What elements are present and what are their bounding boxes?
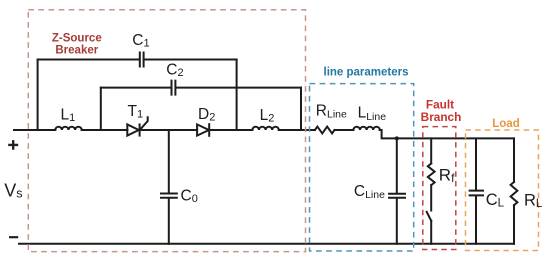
- wire bottom rail: [19, 243, 514, 245]
- wire C0 branch upper: [168, 130, 170, 193]
- resistor RLine: [315, 127, 335, 134]
- wire C2 horizontal: [101, 87, 301, 89]
- label plus terminal: [8, 140, 18, 150]
- wire C1 top horizontal: [38, 59, 237, 61]
- svg-text:Fault: Fault: [426, 97, 454, 111]
- wire CLine branch lower: [396, 198, 398, 244]
- wire CL branch lower: [475, 196, 477, 244]
- wire L2 to RLine: [279, 129, 315, 131]
- wire RL branch upper: [513, 138, 515, 182]
- wire switch to bottom: [430, 221, 432, 244]
- Z-Source Breaker dashed box: [28, 10, 305, 252]
- line parameters dashed box: [310, 84, 414, 251]
- capacitor CLine: [389, 194, 405, 198]
- inductor L1: [55, 127, 81, 130]
- wire CL branch upper: [475, 138, 477, 190]
- wire main top rail left: [14, 129, 55, 131]
- resistor RL: [511, 182, 518, 205]
- wire C2 right vertical: [300, 88, 302, 130]
- wire C0 branch lower: [168, 198, 170, 244]
- svg-text:Breaker: Breaker: [55, 45, 98, 57]
- capacitor C1: [140, 53, 144, 67]
- label minus terminal: [9, 236, 18, 238]
- resistor Rf: [428, 164, 435, 186]
- wire L1 to T1: [82, 129, 128, 131]
- wire RLine to LLine: [335, 129, 354, 131]
- thyristor T1: [127, 124, 139, 135]
- node junction dot CLine: [395, 136, 399, 140]
- inductor L2: [252, 127, 278, 130]
- svg-text:Load: Load: [492, 118, 519, 130]
- capacitor CL: [470, 191, 483, 196]
- svg-text:line parameters: line parameters: [324, 67, 409, 79]
- svg-text:Z-Source: Z-Source: [52, 32, 102, 44]
- capacitor C2: [172, 81, 176, 95]
- switch blade fault: [427, 212, 432, 221]
- wire C2 left vertical: [100, 88, 102, 130]
- wire Rf branch upper: [430, 138, 432, 163]
- wire C1 right vertical: [236, 60, 238, 131]
- Fault Branch dashed box: [423, 127, 456, 250]
- wire step down after LLine: [380, 130, 514, 138]
- wire C1 left vertical: [37, 60, 39, 131]
- wire RL branch lower: [513, 205, 515, 244]
- Load dashed box: [466, 130, 539, 251]
- wire T1 to D2: [140, 129, 198, 131]
- capacitor C0: [161, 194, 177, 198]
- diode D2: [197, 124, 209, 135]
- svg-text:Branch: Branch: [421, 110, 462, 124]
- inductor LLine: [353, 127, 379, 130]
- wire Rf to switch: [430, 185, 432, 210]
- wire D2 to L2: [209, 129, 252, 131]
- wire CLine branch upper: [396, 138, 398, 193]
